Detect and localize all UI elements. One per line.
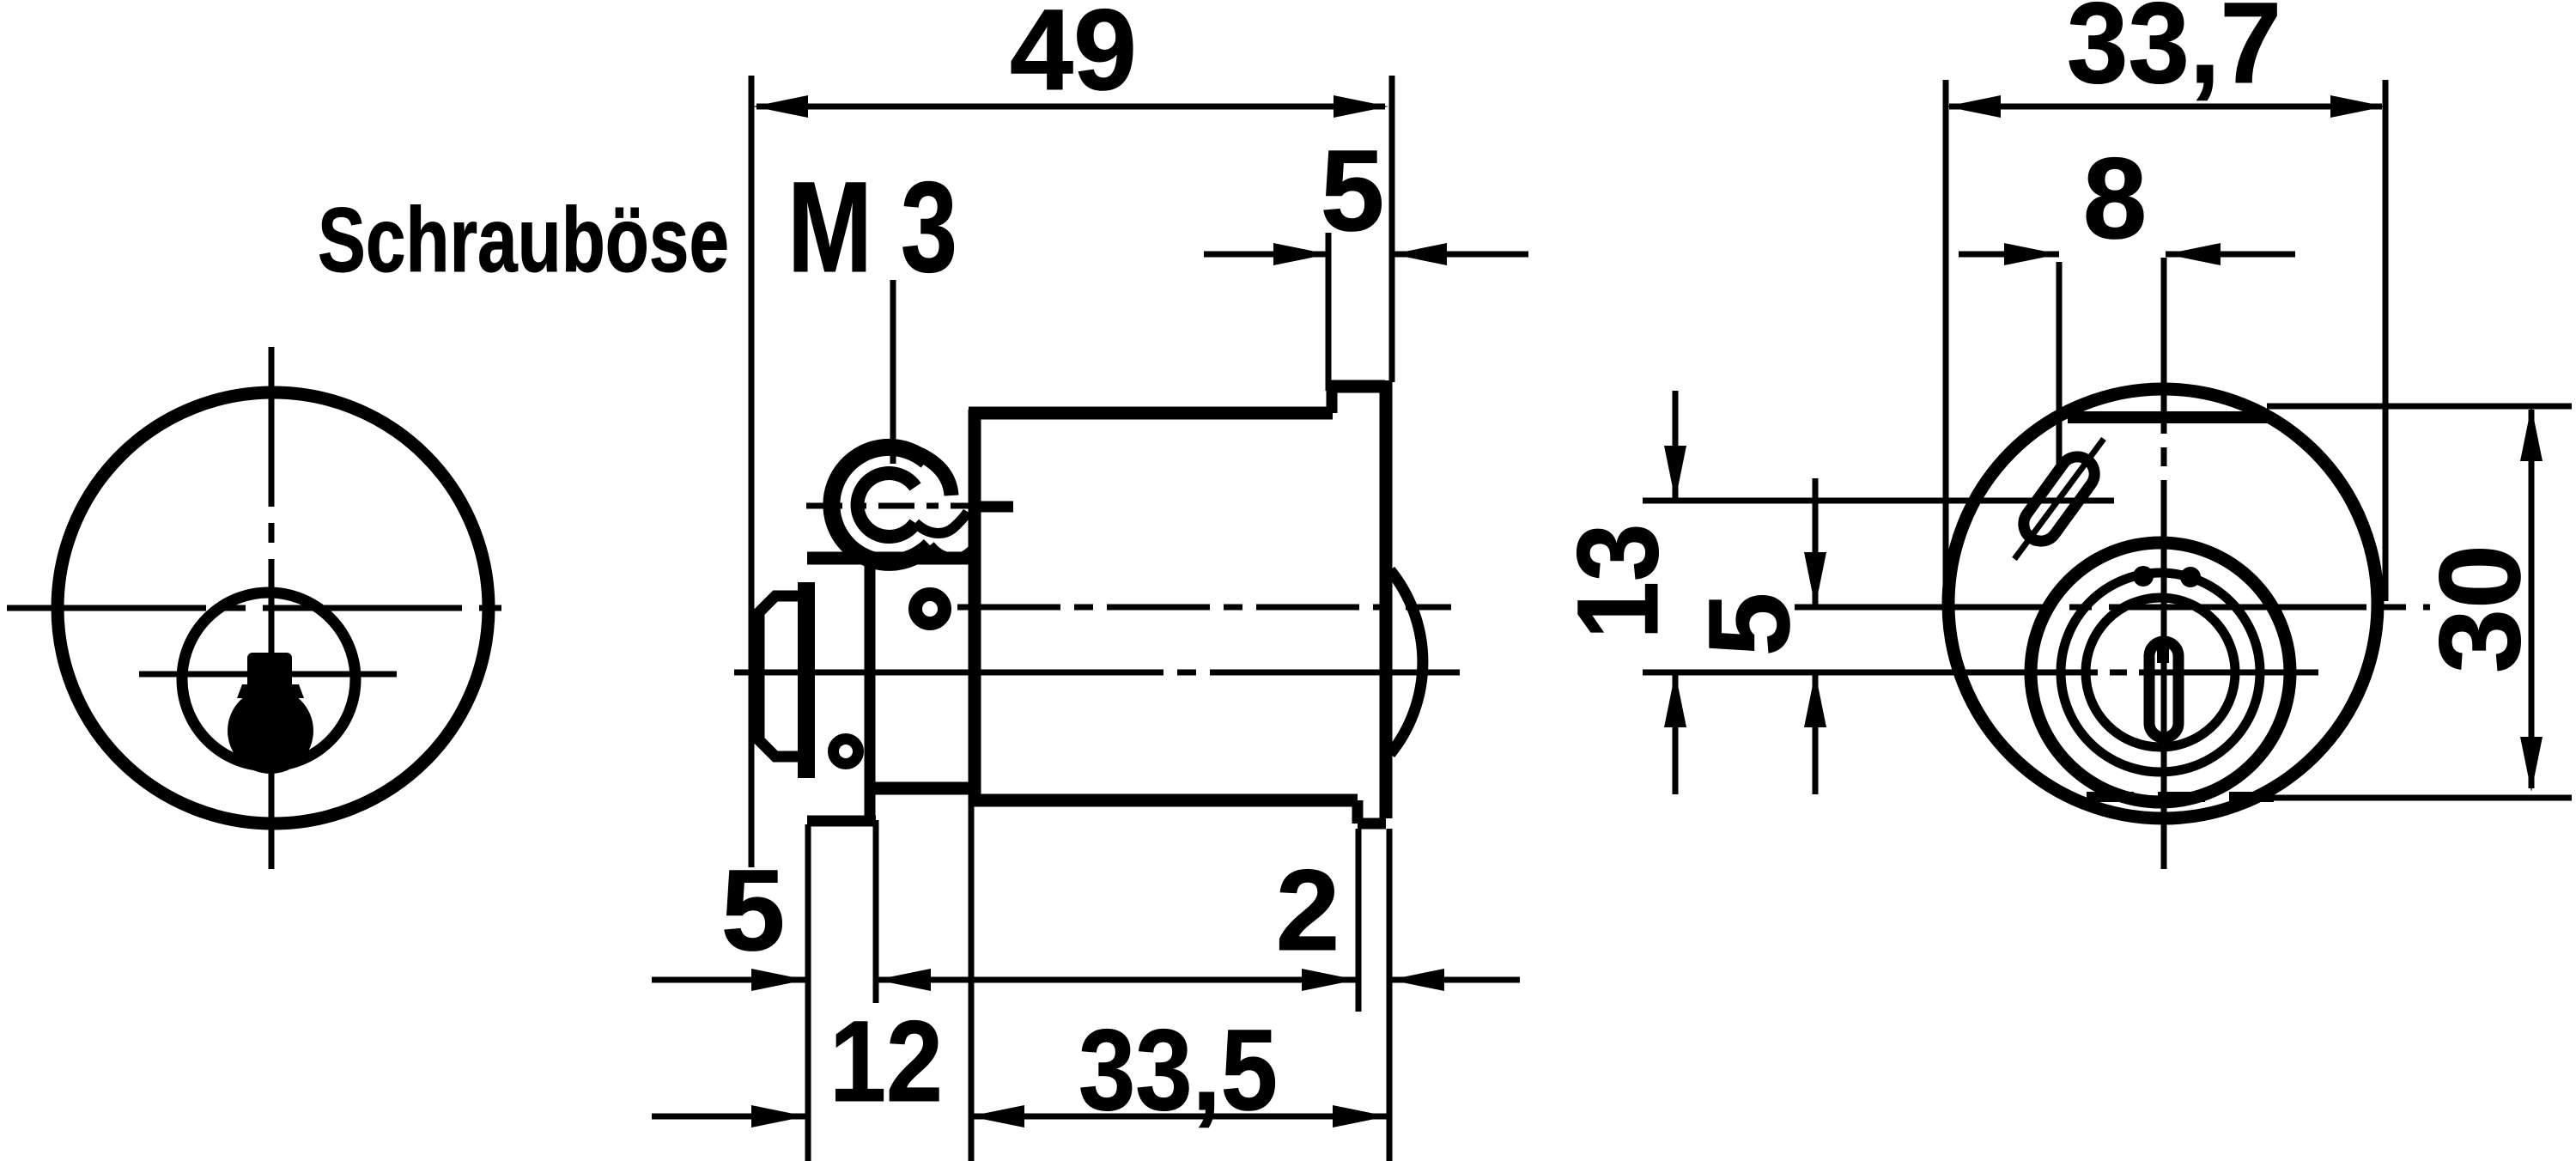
key silhouette shoulders bbox=[237, 684, 304, 698]
screw eye upper hook bbox=[920, 454, 951, 495]
dim 12 left arrow bbox=[751, 1105, 806, 1128]
rear plug axis line bbox=[1643, 670, 2318, 676]
screw eye centerline bbox=[806, 503, 1013, 509]
rear view main axis bbox=[1795, 605, 2430, 611]
body top edge bbox=[969, 407, 1333, 420]
dim 30 top extension line bbox=[2267, 404, 2572, 410]
key silhouette knob bbox=[228, 688, 313, 774]
screw eye lower tail bbox=[930, 545, 975, 558]
svg-text:49: 49 bbox=[1010, 0, 1137, 114]
dim 13 up arrow bbox=[1664, 672, 1686, 727]
keyhole top notch bbox=[2157, 646, 2169, 663]
dim 5 right lower arrow line bbox=[1813, 672, 1819, 794]
rear flange right face bbox=[1380, 380, 1393, 818]
extension line front flange left bbox=[805, 824, 811, 1161]
dim 33,7 left arrow bbox=[1946, 95, 2001, 118]
dim 5 top line right part bbox=[1392, 252, 1528, 258]
svg-text:12: 12 bbox=[829, 998, 943, 1126]
extension line rear flange right bbox=[1387, 829, 1393, 1161]
dim 33,7 right extension line bbox=[2383, 80, 2389, 601]
flange bottom step bbox=[1352, 800, 1364, 824]
dim 5 right down arrow bbox=[1804, 552, 1826, 607]
upper rivet hole bbox=[915, 594, 945, 623]
svg-text:5: 5 bbox=[1686, 593, 1814, 657]
screw eye lower jaw bbox=[915, 512, 968, 533]
dim 30 bottom extension line bbox=[2274, 795, 2572, 801]
dim 5 bottom left arrow bbox=[751, 969, 806, 991]
front cap ring outline bbox=[759, 596, 799, 757]
dim 49 left extension line bbox=[749, 76, 755, 867]
dim 2 left arrow bbox=[1302, 969, 1357, 991]
rear view outer flange circle bbox=[1948, 389, 2378, 818]
dim 5 right up arrow bbox=[1804, 672, 1826, 727]
rear view body top flat chord bbox=[2068, 411, 2271, 423]
rear plug middle circle bbox=[2061, 573, 2260, 772]
svg-text:33,7: 33,7 bbox=[2067, 0, 2281, 107]
svg-text:5: 5 bbox=[1321, 127, 1385, 255]
eye wire stub bbox=[975, 501, 1013, 513]
extension line rear flange left bbox=[1356, 829, 1362, 1012]
dim 49 right arrow bbox=[1334, 95, 1388, 118]
svg-text:8: 8 bbox=[2083, 135, 2148, 263]
rear view body bottom flat chord (hidden) bbox=[2087, 792, 2274, 802]
body bottom edge bbox=[969, 794, 1358, 807]
svg-text:13: 13 bbox=[1554, 524, 1682, 640]
dim 33,7 right arrow bbox=[2330, 95, 2385, 118]
dim 30 line bbox=[2529, 410, 2535, 788]
dim 30 up arrow bbox=[2520, 406, 2543, 461]
oblong hole diagonal centerline bbox=[2014, 439, 2104, 559]
dim 8 right arrow bbox=[2166, 243, 2221, 265]
M3 leader line bbox=[890, 280, 896, 464]
dim 33,7 line bbox=[1949, 104, 2382, 110]
dim 49 left arrow bbox=[753, 95, 808, 118]
dim 8 left extension line bbox=[2057, 262, 2063, 468]
pin dot right bbox=[2180, 567, 2201, 587]
svg-text:Schrauböse: Schrauböse bbox=[318, 188, 729, 291]
dim 33,7 left extension line bbox=[1943, 80, 1949, 593]
dim 2 line right part bbox=[1389, 977, 1520, 983]
dim 5 top left arrow bbox=[1273, 243, 1328, 265]
dim 13 upper arrow line bbox=[1673, 391, 1679, 499]
dim 5 top line left part bbox=[1204, 252, 1328, 258]
dim 49 line bbox=[756, 104, 1385, 110]
rear plug outer circle bbox=[2031, 543, 2290, 802]
dim 2 right arrow bbox=[1389, 969, 1444, 991]
front view plug circle bbox=[182, 593, 355, 766]
svg-text:33,5: 33,5 bbox=[1078, 1006, 1278, 1134]
body front face bbox=[969, 410, 981, 805]
front view plug crosshair line bbox=[139, 672, 397, 678]
dim 12 / 33,5 line left part bbox=[652, 1114, 806, 1120]
keyhole slot outline bbox=[2149, 641, 2178, 738]
front flange ring right face bbox=[865, 562, 876, 816]
pin dot left bbox=[2133, 566, 2154, 587]
dim 8 line right part bbox=[2166, 252, 2295, 258]
dim 30 down arrow bbox=[2520, 737, 2543, 792]
front flange ring bottom edge bbox=[807, 816, 876, 827]
side view upper axis bbox=[957, 605, 1451, 611]
dim 13 lower arrow line bbox=[1673, 672, 1679, 794]
body top step bbox=[1327, 384, 1338, 413]
dim 49 right extension line bbox=[1389, 76, 1395, 382]
rear plug inner circle bbox=[2086, 598, 2235, 747]
lower rivet hole bbox=[834, 739, 859, 764]
flange bottom edge bbox=[1358, 818, 1386, 830]
dim 5 bottom line left part bbox=[652, 977, 806, 983]
dim 5 bottom right arrow bbox=[876, 969, 931, 991]
oblong hole horizontal line (13 ref) bbox=[1643, 498, 2114, 504]
dim 5 / dim 2 shared middle line bbox=[876, 977, 1357, 983]
rear cam bulge arc bbox=[1390, 570, 1423, 754]
front cap joint band bbox=[798, 582, 815, 778]
dim 8 left arrow bbox=[2004, 243, 2059, 265]
neck bottom edge bbox=[870, 782, 975, 795]
dim 33,5 right arrow bbox=[1333, 1105, 1388, 1128]
extension line front flange right bbox=[873, 820, 879, 1003]
front view outer housing circle (d33.7 flange) bbox=[58, 392, 489, 824]
dim 5 top right arrow bbox=[1392, 243, 1447, 265]
front view horizontal centerline bbox=[7, 605, 515, 611]
svg-text:30: 30 bbox=[2416, 544, 2544, 673]
screw eye outer ring bbox=[831, 447, 930, 562]
shoulder top edge bbox=[1327, 380, 1385, 393]
front section top edge bbox=[807, 552, 975, 565]
dim 33,5 line bbox=[969, 1114, 1388, 1120]
rear view vertical centerline bbox=[2161, 258, 2167, 869]
svg-text:2: 2 bbox=[1276, 847, 1340, 975]
oblong screw hole outline bbox=[2017, 450, 2101, 548]
dim 33,5 left arrow bbox=[969, 1105, 1024, 1128]
svg-text:M 3: M 3 bbox=[787, 155, 957, 299]
extension line body front face bbox=[969, 805, 975, 1161]
svg-text:5: 5 bbox=[721, 847, 786, 975]
dim 5 top left extension line bbox=[1326, 233, 1332, 391]
side view lower axis bbox=[734, 670, 1460, 676]
dim 5 right upper arrow line bbox=[1813, 478, 1819, 607]
front view vertical centerline bbox=[269, 347, 275, 869]
key silhouette head bbox=[247, 653, 292, 690]
dim 8 line left part bbox=[1959, 252, 2059, 258]
screw eye inner ring bbox=[858, 473, 915, 537]
dim 13 down arrow bbox=[1664, 446, 1686, 501]
